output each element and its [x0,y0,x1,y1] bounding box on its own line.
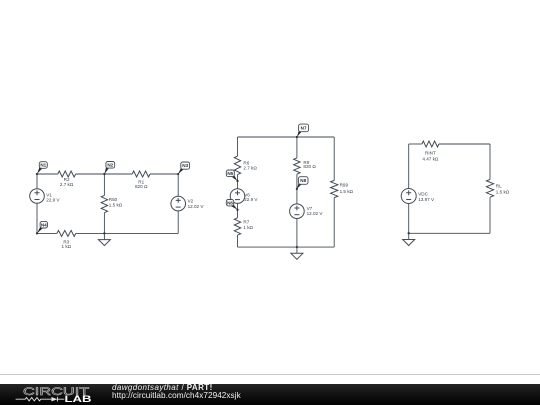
node flag N6 [226,200,237,210]
label V7 value [307,206,324,216]
wire R1 to N3 [150,173,178,175]
resistor R2 [58,171,76,177]
svg-text:R6: R6 [243,160,249,165]
voltage source V2 [171,196,186,211]
wire V1 top lead [36,174,38,189]
wire R3 to ground junction [76,232,105,234]
voltage source VDC [401,189,416,204]
wire top-left N1 to R2 [37,173,58,175]
svg-text:N8: N8 [300,178,306,183]
node flag N1 [37,162,47,174]
svg-text:RL: RL [496,184,502,189]
svg-text:2.7 kΩ: 2.7 kΩ [243,166,257,171]
svg-text:2.7 kΩ: 2.7 kΩ [60,182,74,187]
label R1 value [135,180,148,190]
wire middle top rail [238,136,335,138]
label R7 value [243,220,253,230]
svg-text:N3: N3 [182,163,188,168]
ground left circuit [98,233,110,245]
junction dot N6 [236,209,238,211]
node flag N2 [104,162,114,175]
voltage source V1 [30,189,45,204]
resistor R1 [132,171,150,177]
label VDC value [418,192,435,202]
wire V2 bottom lead [177,211,179,234]
junction dot N5 [236,180,238,182]
svg-text:N6: N6 [227,200,233,205]
svg-text:22.9 V: 22.9 V [244,197,258,202]
wire R99 top lead [333,137,335,180]
svg-text:N7: N7 [301,126,307,131]
wire VDC top lead [408,144,410,189]
junction dot ground left [103,232,105,234]
wire N2 to R1 [104,173,132,175]
label V1 value [46,192,60,202]
label RL value [496,184,510,195]
wire RL top lead [489,144,491,179]
label R3 value [62,239,72,248]
canvas bottom border line [0,374,540,375]
node flag N3 [178,162,189,174]
svg-text:13.97 V: 13.97 V [418,197,435,202]
wire R2 to N2 [76,173,105,175]
svg-text:1.5 kΩ: 1.5 kΩ [496,190,510,195]
label R50 value [109,197,123,207]
svg-text:12.02 V: 12.02 V [307,211,324,216]
junction dot N8 [296,188,298,190]
wire RINT to top-right corner [439,143,490,145]
junction dot N2 [103,173,105,175]
junction dot N4 [36,232,38,234]
wire R50 bottom lead [103,213,105,234]
svg-text:820 Ω: 820 Ω [135,184,148,189]
label V2 value [188,199,205,209]
wire RL bottom lead [489,197,491,233]
resistor R6 [234,156,240,175]
svg-text:VDC: VDC [418,192,428,197]
svg-text:22.9 V: 22.9 V [46,197,60,202]
svg-text:R99: R99 [340,183,349,188]
svg-text:RINT: RINT [425,151,436,156]
wire V2 top lead [177,174,179,196]
node flag N7 [297,124,309,137]
svg-text:R7: R7 [243,220,249,225]
wire R9 top lead [296,137,298,158]
svg-text:820 Ω: 820 Ω [303,164,316,169]
wire R6 top lead [237,137,239,156]
junction dot middle ground [296,246,298,248]
resistor R50 [101,195,107,212]
label R99 value [340,183,354,194]
wire middle bottom rail [238,246,335,248]
svg-text:1.5 kΩ: 1.5 kΩ [340,189,354,194]
node flag N8 [297,177,308,189]
resistor R3 [57,230,76,236]
voltage source V7 [290,204,305,219]
wire V7 bottom lead [296,219,298,248]
wire R6 to V6 [237,175,239,189]
svg-text:12.02 V: 12.02 V [188,204,205,209]
resistor R99 [331,180,338,197]
svg-text:LAB: LAB [65,394,92,404]
svg-text:N5: N5 [227,171,233,176]
svg-text:N4: N4 [41,222,47,227]
junction dot N7 [296,136,298,138]
svg-text:1.5 kΩ: 1.5 kΩ [109,202,123,207]
label R2 value [60,177,74,187]
svg-text:1 kΩ: 1 kΩ [62,244,72,249]
wire R9 to V7 [296,174,298,204]
footer url text [112,392,241,400]
resistor R7 [234,218,240,235]
wire right bottom rail [409,232,490,234]
label R9 value [303,160,316,169]
ground right circuit [403,233,415,245]
svg-text:N1: N1 [40,163,46,168]
CircuitLab logo [0,384,110,405]
voltage source V6 [230,189,245,204]
ground middle circuit [291,247,303,259]
junction dot right ground [408,232,410,234]
footer title text [112,384,213,392]
node flag N4 [37,221,48,233]
footer bar [0,384,540,405]
wire right top-left corner to RINT [409,143,422,145]
junction dot N1 [36,173,38,175]
wire R50 top lead [103,174,105,195]
svg-text:N2: N2 [107,162,113,167]
wire bottom to V2 [104,232,178,234]
node flag N5 [226,170,237,181]
wire V1 bottom lead [36,203,38,233]
wire VDC bottom lead [408,204,410,234]
resistor RL [486,179,493,197]
label RINT value [422,151,439,162]
wire N4 to R3 [37,232,57,234]
wire R99 bottom lead [333,198,335,248]
resistor RINT [422,141,439,147]
wire V6 to R7 [237,204,239,218]
svg-text:1 kΩ: 1 kΩ [243,225,253,230]
label V6 value [244,193,258,202]
junction dot N3 [177,173,179,175]
wire R7 bottom lead [237,235,239,247]
svg-text:4.47 kΩ: 4.47 kΩ [422,156,439,161]
resistor R9 [294,158,300,174]
label R6 value [243,160,257,170]
svg-text:R50: R50 [109,197,118,202]
